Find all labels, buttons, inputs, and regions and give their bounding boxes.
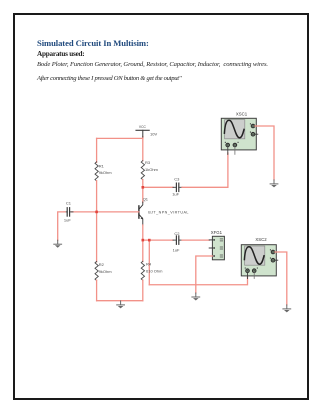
oscilloscope XSC1 bbox=[221, 118, 257, 154]
wire R2 bottom lead bbox=[96, 280, 98, 301]
wire R3 bottom to collector node bbox=[142, 180, 144, 188]
wire VCC stem bbox=[142, 137, 144, 161]
ground XFG1 bbox=[192, 293, 200, 301]
capacitor C1 bbox=[64, 208, 73, 216]
wire R4 top bbox=[142, 240, 144, 262]
wire Q1 emitter down bbox=[142, 225, 144, 240]
subtitle text bbox=[37, 50, 84, 58]
wire R1 bottom to base node bbox=[96, 181, 98, 212]
paragraph 1 bbox=[37, 61, 268, 68]
svg-text:BJT_NPN_VIRTUAL: BJT_NPN_VIRTUAL bbox=[148, 210, 189, 214]
svg-text:C1: C1 bbox=[66, 200, 72, 205]
capacitor C2 bbox=[173, 236, 182, 244]
wire XSC2 to ground bbox=[275, 252, 287, 305]
wire C3 to XSC1 bbox=[182, 153, 228, 187]
wire emitter tap down bbox=[148, 240, 150, 285]
svg-text:9kOhm: 9kOhm bbox=[99, 269, 113, 274]
wire R4 bottom lead bbox=[142, 280, 144, 301]
paragraph 2 bbox=[37, 75, 181, 82]
svg-text:C3: C3 bbox=[174, 177, 180, 182]
wire XSC1 to ground bbox=[255, 126, 274, 180]
wire C1 left to ground bbox=[58, 212, 65, 240]
oscilloscope XSC2 bbox=[241, 245, 277, 279]
junction emitter tap bbox=[148, 239, 151, 242]
svg-text:1uF: 1uF bbox=[64, 218, 71, 223]
svg-text:VCC: VCC bbox=[139, 125, 147, 129]
title text bbox=[37, 38, 149, 48]
transistor Q1 bbox=[139, 202, 143, 225]
wire C3 branch left bbox=[143, 186, 173, 188]
function generator XFG1 bbox=[209, 236, 224, 259]
svg-text:1uF: 1uF bbox=[173, 247, 180, 252]
svg-text:1kOhm: 1kOhm bbox=[145, 167, 159, 172]
svg-text:XSC1: XSC1 bbox=[236, 112, 248, 117]
wire XFG1 to ground bbox=[196, 256, 213, 293]
svg-text:R4: R4 bbox=[146, 262, 152, 267]
wire bottom rail bbox=[97, 300, 143, 302]
ground XSC2 bbox=[283, 305, 291, 313]
svg-text:Q1: Q1 bbox=[143, 197, 149, 202]
capacitor C3 bbox=[173, 183, 182, 191]
svg-text:R2: R2 bbox=[99, 262, 105, 267]
wire R1 top lead bbox=[96, 138, 98, 162]
svg-text:R1: R1 bbox=[99, 163, 105, 168]
svg-text:XFG1: XFG1 bbox=[211, 230, 223, 235]
svg-text:610 Ohm: 610 Ohm bbox=[146, 268, 163, 273]
resistor R1 bbox=[95, 162, 98, 181]
wire base node to R2 bbox=[96, 212, 98, 262]
resistor R3 bbox=[141, 161, 144, 180]
svg-text:1uF: 1uF bbox=[172, 191, 179, 196]
wire C2 to XFG1 bbox=[182, 239, 209, 241]
wire collector node to Q1 collector bbox=[142, 187, 144, 202]
ground input bbox=[54, 240, 62, 248]
junction collector node bbox=[142, 186, 145, 189]
svg-text:10V: 10V bbox=[150, 131, 157, 136]
junction emitter node bbox=[142, 239, 145, 242]
ground bottom center bbox=[117, 301, 125, 309]
resistor R2 bbox=[95, 261, 98, 280]
wire long bottom to XSC2 bbox=[149, 273, 247, 285]
svg-text:R3: R3 bbox=[145, 160, 151, 165]
wire top rail VCC bbox=[97, 137, 143, 139]
svg-text:9kOhm: 9kOhm bbox=[99, 170, 113, 175]
svg-text:C2: C2 bbox=[174, 231, 180, 236]
power VCC bbox=[136, 130, 149, 137]
ground XSC1 bbox=[270, 180, 278, 188]
resistor R4 bbox=[141, 261, 144, 280]
svg-text:XSC2: XSC2 bbox=[255, 237, 267, 242]
junction base node bbox=[95, 211, 98, 214]
wire input base bbox=[72, 211, 139, 213]
wire emitter rail to C2 bbox=[143, 239, 173, 241]
